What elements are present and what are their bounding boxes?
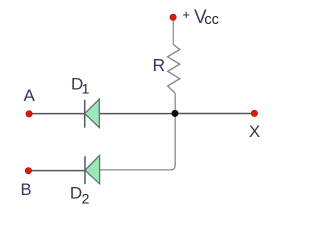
node A (red dot) <box>26 111 32 117</box>
wire B to D2 <box>28 170 85 172</box>
junction node (black dot) <box>171 110 178 117</box>
svg-text:2: 2 <box>82 191 90 207</box>
svg-text:B: B <box>20 181 31 199</box>
svg-text:D: D <box>70 184 82 203</box>
svg-text:X: X <box>249 122 260 141</box>
diode D1 cathode bar <box>84 100 86 128</box>
diode D2 triangle <box>85 155 100 184</box>
wire junction down then left to D2 <box>100 114 176 170</box>
diode D2 cathode bar <box>84 156 86 184</box>
node X (red dot) <box>251 110 257 116</box>
wire Vcc dot to resistor top <box>172 19 174 45</box>
wire junction to X <box>175 113 254 115</box>
wire A to D1 <box>29 113 85 115</box>
svg-text:+: + <box>182 7 190 22</box>
svg-text:R: R <box>152 55 165 75</box>
wire resistor bottom jog to junction <box>174 92 176 114</box>
wire D1 to junction <box>99 113 175 115</box>
node +Vcc (red dot) <box>170 14 176 20</box>
svg-text:A: A <box>24 86 36 105</box>
node B (red dot) <box>25 168 31 174</box>
resistor R <box>168 45 180 92</box>
svg-text:cc: cc <box>204 12 219 28</box>
svg-text:1: 1 <box>82 81 90 97</box>
diode D1 triangle <box>85 99 100 128</box>
